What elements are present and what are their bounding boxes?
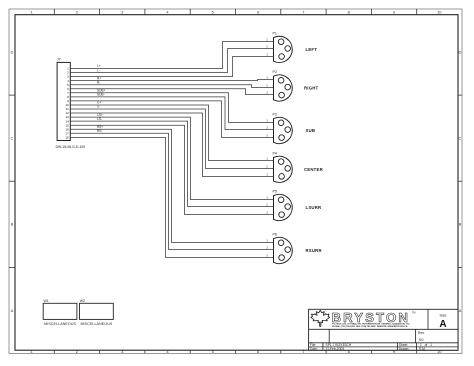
svg-text:SUB-: SUB- [97, 93, 105, 97]
svg-text:W2: W2 [80, 299, 85, 303]
svg-text:10: 10 [437, 10, 442, 15]
svg-text:LS-: LS- [97, 117, 102, 121]
svg-text:A: A [459, 308, 462, 313]
svg-text:RIGHT: RIGHT [304, 86, 319, 91]
svg-text:00: 00 [419, 337, 424, 342]
svg-text:D: D [459, 50, 462, 55]
svg-text:P.O. BOX 2170, 677 NEAL DR., P: P.O. BOX 2170, 677 NEAL DR., PETERBOROUG… [332, 322, 410, 325]
svg-text:MISCELLANEOUS: MISCELLANEOUS [80, 322, 112, 326]
svg-text:D: D [11, 50, 14, 55]
svg-text:W1: W1 [44, 299, 49, 303]
svg-text:RS-: RS- [97, 129, 103, 133]
svg-text:CENTER: CENTER [304, 167, 324, 172]
svg-text:C: C [459, 136, 462, 141]
svg-text:P3: P3 [273, 113, 277, 117]
svg-text:B: B [459, 222, 462, 227]
svg-text:Size: Size [440, 314, 447, 318]
svg-text:LSURR: LSURR [306, 205, 322, 210]
svg-text:L-: L- [97, 68, 100, 72]
svg-text:Date:: Date: [310, 347, 318, 351]
svg-text:LEFT: LEFT [306, 47, 318, 52]
svg-text:PHONE: (705) 742-5325 FAX: (7: PHONE: (705) 742-5325 FAX: (705) 742-088… [332, 325, 408, 328]
svg-text:C: C [11, 136, 14, 141]
svg-text:Rev.: Rev. [418, 331, 425, 335]
svg-text:TM: TM [412, 312, 415, 315]
svg-text:18: 18 [65, 135, 69, 139]
svg-text:R-: R- [97, 80, 100, 84]
svg-text:B: B [11, 222, 14, 227]
svg-text:SUB: SUB [306, 128, 316, 133]
svg-text:P6: P6 [273, 233, 277, 237]
svg-text:P5: P5 [273, 190, 277, 194]
svg-text:P1: P1 [273, 32, 277, 36]
svg-text:RSURR: RSURR [306, 248, 323, 253]
svg-text:DW-18-08-G-D-420: DW-18-08-G-D-420 [56, 145, 86, 149]
svg-text:MISCELLANEOUS: MISCELLANEOUS [44, 322, 76, 326]
svg-text:A: A [11, 308, 14, 313]
svg-text:C-: C- [97, 105, 100, 109]
svg-text:11-Feb-2003: 11-Feb-2003 [326, 347, 345, 351]
svg-text:A: A [439, 319, 446, 330]
svg-text:S.M.: S.M. [419, 347, 426, 351]
svg-text:P4: P4 [273, 152, 277, 156]
svg-text:Drawn:: Drawn: [399, 347, 410, 351]
svg-text:P2: P2 [273, 70, 277, 74]
